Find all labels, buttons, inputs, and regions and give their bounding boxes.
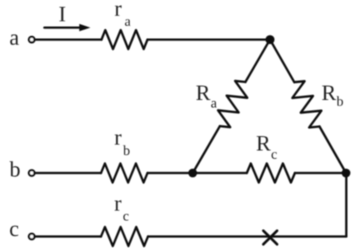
- resistor r_b: [101, 164, 148, 183]
- label a: [10, 34, 19, 45]
- label r_a: [115, 5, 122, 15]
- terminal c (open circle): [29, 234, 35, 240]
- wire: top node to resistor R_b: [270, 40, 294, 83]
- terminal b (open circle): [29, 170, 35, 176]
- wire: resistor R_c to right node: [295, 172, 346, 174]
- label c: [10, 226, 18, 237]
- wire: top node to resistor R_a: [245, 40, 270, 82]
- current arrow I head: [79, 24, 90, 31]
- resistor R_b: [292, 81, 321, 127]
- label r_b: [115, 134, 122, 144]
- resistor R_a: [218, 81, 247, 127]
- wire b: terminal to resistor r_b: [35, 172, 101, 174]
- node: bottom-left junction: [188, 169, 197, 178]
- resistor R_c: [247, 164, 295, 183]
- label r_c: [115, 200, 122, 210]
- wire: resistor R_a to left node: [193, 126, 220, 173]
- resistor r_c: [101, 227, 148, 246]
- wire: resistor R_b to right node: [320, 127, 347, 174]
- current arrow I shaft: [44, 26, 81, 28]
- wire a: terminal to resistor r_a: [35, 38, 102, 40]
- resistor r_a: [102, 30, 148, 49]
- wire: left node to resistor R_c: [193, 172, 247, 174]
- break mark X on wire c: [263, 231, 277, 245]
- terminal a (open circle): [29, 37, 35, 43]
- wire c: resistor r_c to bottom-right corner: [148, 235, 346, 237]
- node: bottom-right junction: [342, 169, 351, 178]
- wire b: resistor r_b to left node: [148, 172, 193, 174]
- wire c: terminal to resistor r_c: [35, 235, 101, 237]
- label R_c: [257, 136, 271, 150]
- label b: [10, 161, 20, 176]
- wire: right side vertical from bottom corner up to right node: [345, 173, 347, 237]
- node: top junction: [266, 35, 275, 44]
- label R_b: [322, 86, 336, 100]
- wire a: resistor r_a to top node: [148, 38, 271, 40]
- label I: [59, 7, 65, 21]
- label R_a: [196, 86, 210, 100]
